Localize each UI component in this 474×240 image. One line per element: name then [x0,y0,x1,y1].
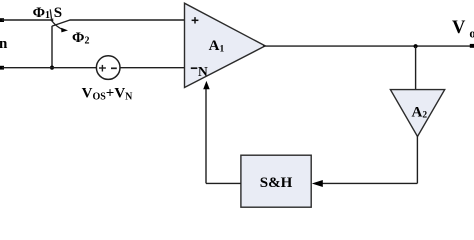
source minus sign [111,67,117,69]
wire (S&H output left) [206,182,241,184]
svg-text:n: n [0,36,8,52]
wire (output junction down to A2) [415,46,417,90]
svg-text:Φ1: Φ1 [33,5,50,21]
wire output (A1 to Vo terminal) [263,45,471,47]
switch S arm (to phi2 position) [52,20,70,26]
A1 minus input sign [191,67,198,69]
svg-text:Vo: Vo [452,18,474,41]
switch S tick [50,9,51,18]
switch S pivot x [51,19,53,21]
svg-text:VOS+VN: VOS+VN [82,86,134,103]
svg-text:S: S [54,5,62,21]
node junction (rail / bottom wire) [50,66,54,70]
node output junction [414,44,418,48]
arrowhead into node N [203,81,210,89]
arrowhead into S&H [312,180,323,187]
svg-text:N: N [198,64,208,79]
A1 plus input sign [192,17,199,23]
node Vo terminal [470,44,474,48]
wire top-left (Vin to switch) [2,19,52,21]
svg-text:S&H: S&H [260,175,293,191]
wire bottom (source to A1 - input) [120,67,185,69]
source VOS+VN [96,56,120,80]
op-amp A1 [185,3,266,87]
wire bottom-left (terminal to source) [2,67,97,69]
wire (A2 output down) [416,136,418,184]
source plus sign [99,65,106,72]
node Vin- terminal (bottom left) [0,66,4,70]
wire top (switch to A1 + input) [70,19,185,21]
wire (up to node N) [205,89,207,184]
block S&H [241,155,311,207]
node Vin+ terminal (top left) [0,18,4,22]
amp A2 [390,90,444,137]
switch S motion arc [52,21,62,29]
svg-text:Φ2: Φ2 [72,30,89,46]
wire (feedback to S&H) [321,182,417,184]
wire vertical rail (switch to bottom rail) [51,26,53,68]
switch S arrowhead [61,28,68,33]
